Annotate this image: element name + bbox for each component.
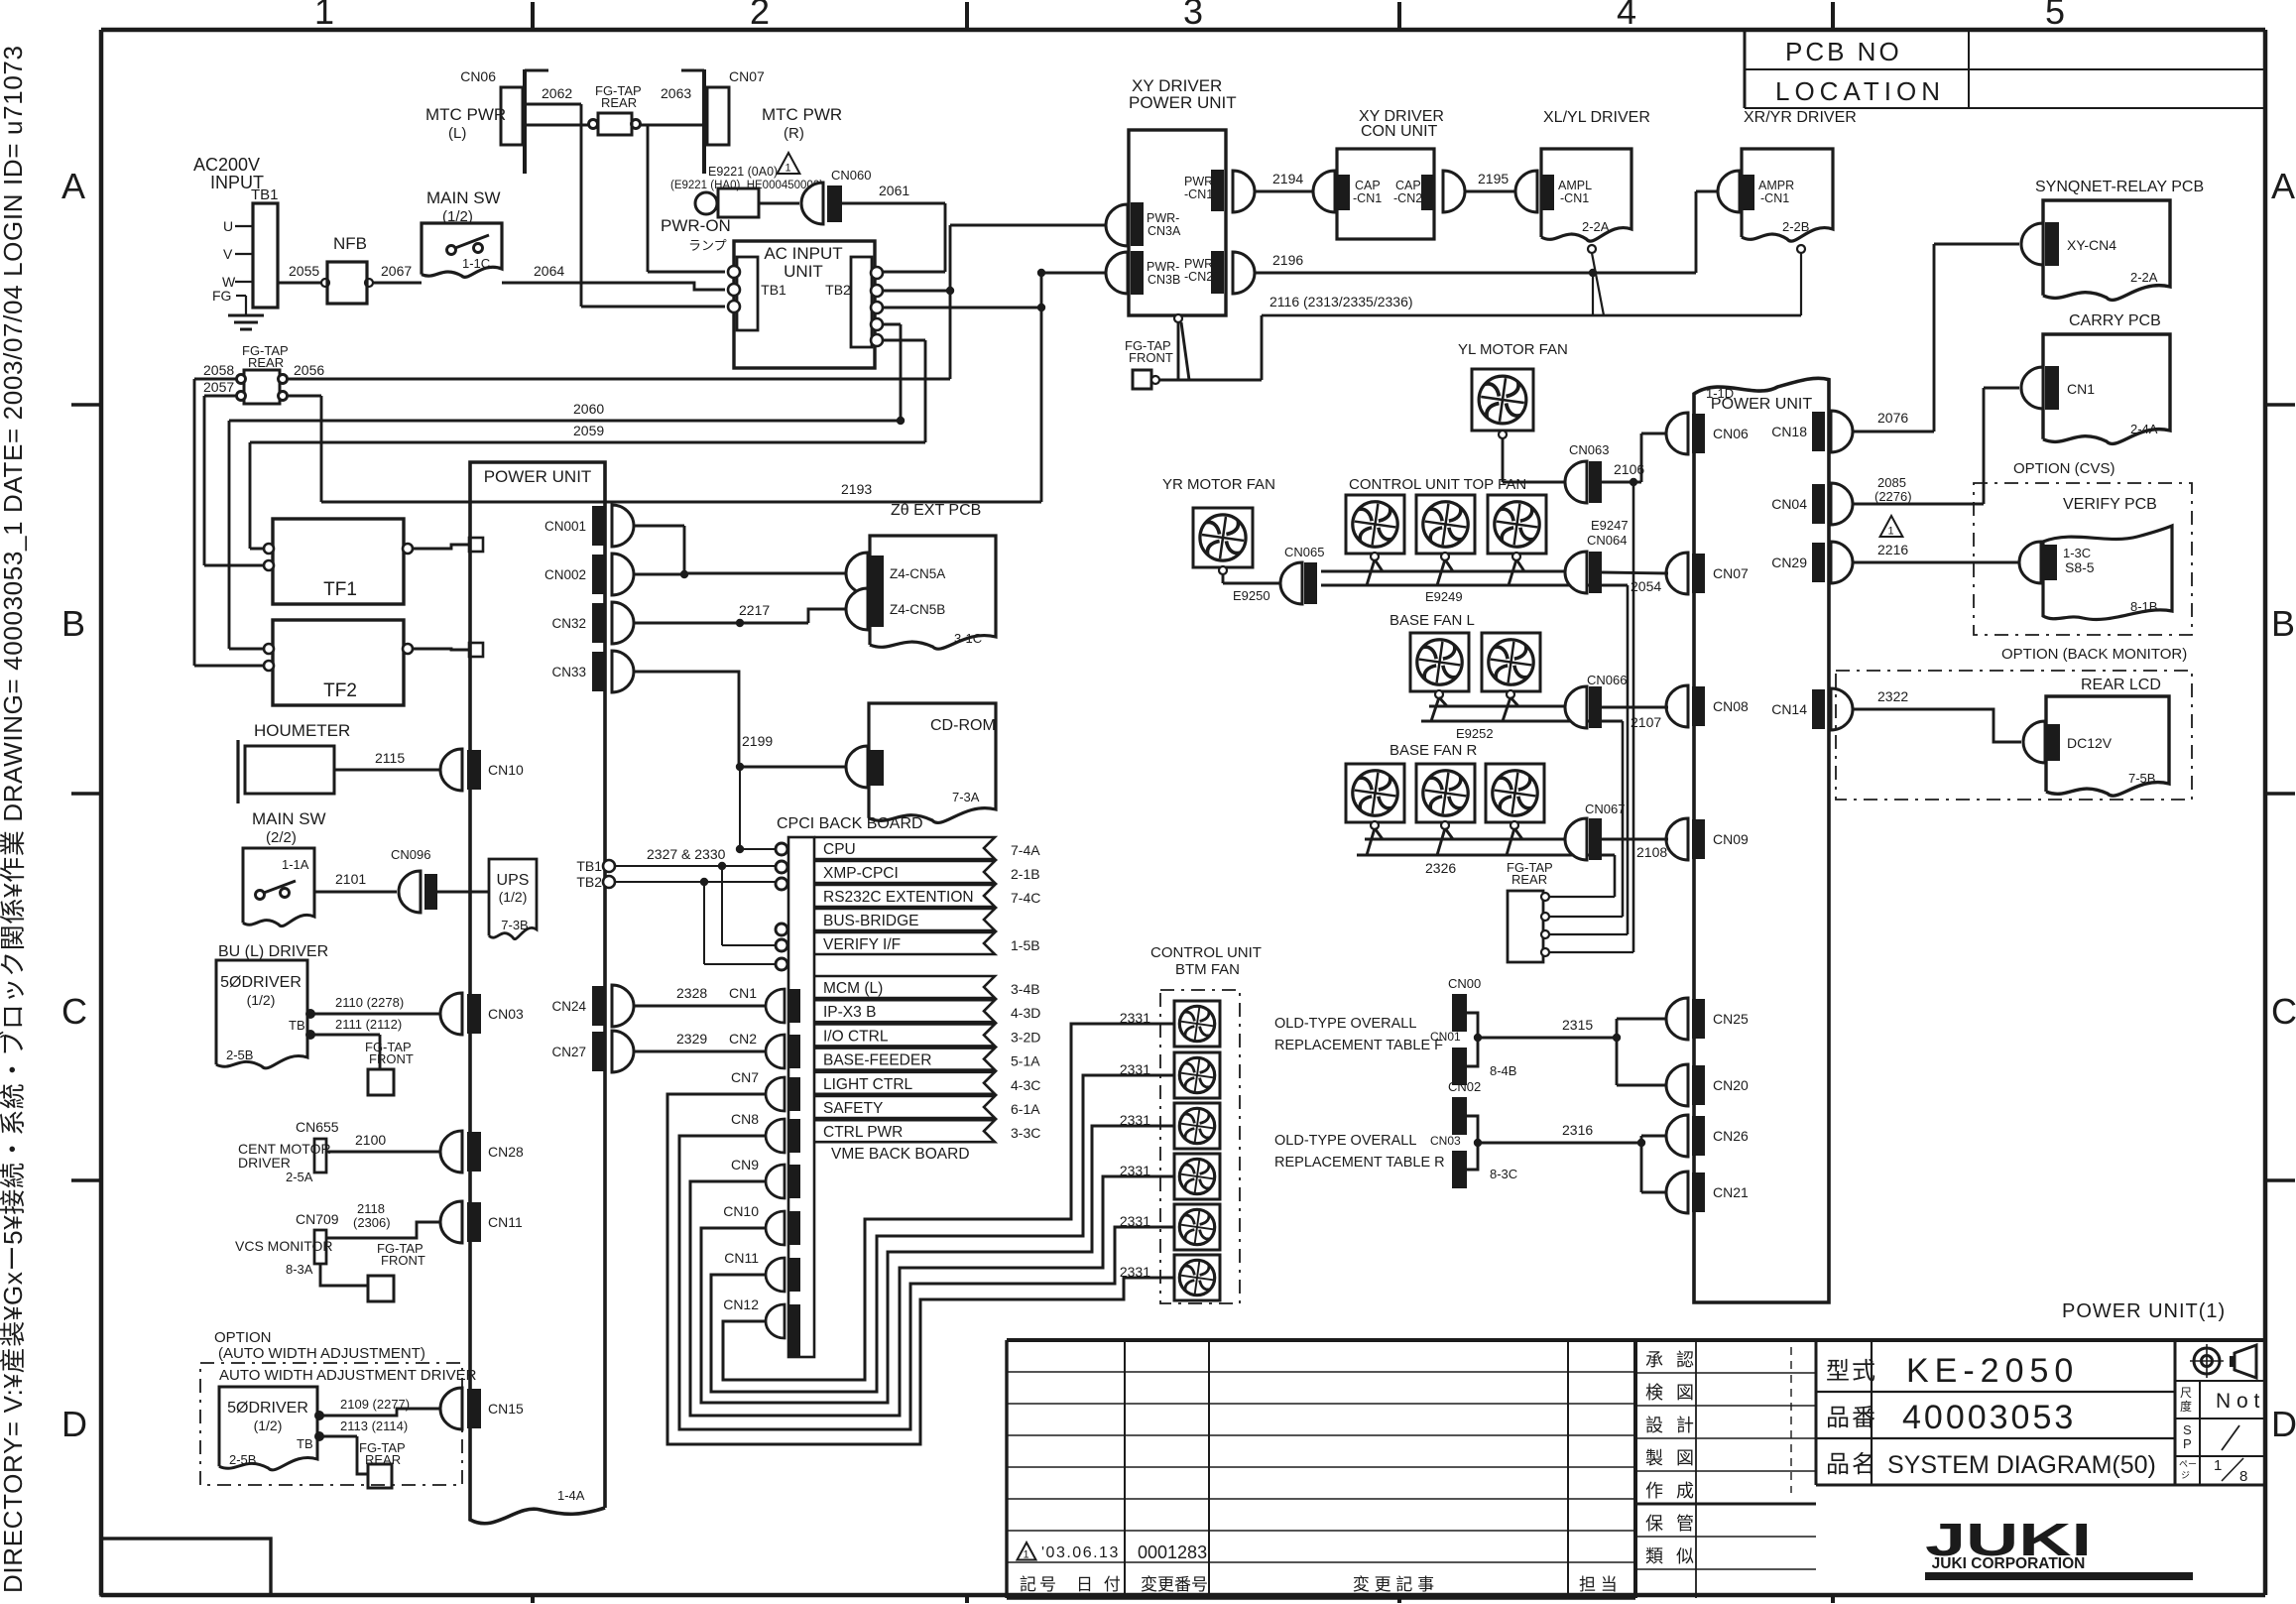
svg-text:BASE-FEEDER: BASE-FEEDER bbox=[823, 1052, 931, 1069]
svg-text:CN064: CN064 bbox=[1587, 533, 1627, 548]
svg-text:40003053: 40003053 bbox=[1902, 1399, 2076, 1436]
svg-text:2055: 2055 bbox=[289, 263, 319, 279]
svg-text:YR MOTOR FAN: YR MOTOR FAN bbox=[1162, 476, 1275, 493]
svg-text:XMP-CPCI: XMP-CPCI bbox=[823, 865, 899, 882]
svg-text:E9247: E9247 bbox=[1591, 518, 1629, 533]
svg-text:CN26: CN26 bbox=[1713, 1128, 1749, 1144]
svg-text:8-1B: 8-1B bbox=[2130, 599, 2157, 614]
svg-text:8: 8 bbox=[2239, 1468, 2247, 1485]
svg-text:MTC PWR: MTC PWR bbox=[762, 105, 842, 124]
svg-text:CN08: CN08 bbox=[1713, 698, 1749, 714]
svg-text:2106: 2106 bbox=[1614, 461, 1644, 477]
svg-text:Z4-CN5B: Z4-CN5B bbox=[890, 602, 945, 617]
svg-text:C: C bbox=[2271, 991, 2296, 1032]
svg-text:2-1B: 2-1B bbox=[1011, 866, 1040, 882]
svg-text:2076: 2076 bbox=[1877, 410, 1908, 426]
svg-text:CN10: CN10 bbox=[723, 1203, 759, 1219]
svg-text:(L): (L) bbox=[448, 125, 466, 142]
svg-text:TF1: TF1 bbox=[323, 579, 357, 600]
svg-text:2315: 2315 bbox=[1562, 1017, 1593, 1033]
svg-text:(1/2): (1/2) bbox=[247, 992, 276, 1008]
svg-text:変 更 記 事: 変 更 記 事 bbox=[1353, 1575, 1434, 1594]
svg-text:CAP: CAP bbox=[1395, 179, 1421, 192]
svg-text:FG: FG bbox=[212, 288, 231, 304]
svg-text:5: 5 bbox=[2045, 0, 2065, 32]
svg-text:2085: 2085 bbox=[1877, 475, 1906, 490]
svg-text:CAP: CAP bbox=[1355, 179, 1381, 192]
svg-text:5-1A: 5-1A bbox=[1011, 1053, 1040, 1069]
svg-text:2108: 2108 bbox=[1636, 844, 1667, 860]
svg-text:日 付: 日 付 bbox=[1076, 1575, 1124, 1594]
svg-text:NFB: NFB bbox=[333, 234, 367, 253]
svg-text:3-4B: 3-4B bbox=[1011, 981, 1040, 997]
svg-text:担 当: 担 当 bbox=[1579, 1575, 1618, 1594]
svg-text:POWER UNIT: POWER UNIT bbox=[1711, 396, 1812, 413]
svg-text:2059: 2059 bbox=[573, 423, 604, 438]
svg-text:CN09: CN09 bbox=[1713, 831, 1749, 847]
svg-text:2061: 2061 bbox=[879, 183, 909, 198]
svg-text:承 認: 承 認 bbox=[1645, 1350, 1698, 1370]
svg-text:BUS-BRIDGE: BUS-BRIDGE bbox=[823, 913, 918, 929]
svg-text:-CN2: -CN2 bbox=[1184, 270, 1213, 284]
svg-text:2-2A: 2-2A bbox=[1582, 219, 1610, 234]
svg-text:CN11: CN11 bbox=[724, 1250, 759, 1266]
svg-text:MCM (L): MCM (L) bbox=[823, 980, 883, 997]
svg-text:S8-5: S8-5 bbox=[2065, 559, 2095, 575]
svg-text:MTC PWR: MTC PWR bbox=[425, 105, 506, 124]
svg-text:TB1: TB1 bbox=[251, 186, 279, 203]
svg-text:品番: 品番 bbox=[1826, 1405, 1877, 1431]
svg-text:(1/2): (1/2) bbox=[499, 889, 528, 905]
svg-text:2216: 2216 bbox=[1877, 542, 1908, 557]
svg-text:TB1: TB1 bbox=[761, 282, 786, 298]
svg-text:CN20: CN20 bbox=[1713, 1077, 1749, 1093]
svg-text:LOCATION: LOCATION bbox=[1775, 76, 1945, 106]
svg-text:8-3A: 8-3A bbox=[286, 1262, 313, 1277]
svg-text:-CN1: -CN1 bbox=[1353, 191, 1382, 205]
svg-text:V: V bbox=[223, 246, 233, 262]
svg-text:FRONT: FRONT bbox=[1129, 350, 1173, 365]
svg-text:POWER UNIT: POWER UNIT bbox=[484, 467, 592, 486]
svg-text:AC INPUT: AC INPUT bbox=[764, 244, 842, 263]
svg-text:ペー: ペー bbox=[2179, 1459, 2197, 1469]
svg-text:VERIFY I/F: VERIFY I/F bbox=[823, 936, 901, 953]
svg-text:DRIVER: DRIVER bbox=[238, 1155, 291, 1171]
svg-text:CN24: CN24 bbox=[551, 999, 586, 1014]
svg-text:SYSTEM DIAGRAM(50): SYSTEM DIAGRAM(50) bbox=[1887, 1451, 2156, 1479]
svg-text:CN04: CN04 bbox=[1771, 496, 1807, 512]
svg-text:REAR: REAR bbox=[601, 95, 637, 110]
svg-text:3-1C: 3-1C bbox=[954, 631, 982, 646]
svg-text:8-4B: 8-4B bbox=[1490, 1063, 1516, 1078]
svg-text:FRONT: FRONT bbox=[369, 1051, 414, 1066]
svg-text:CN2: CN2 bbox=[729, 1031, 757, 1047]
svg-text:2: 2 bbox=[750, 0, 770, 32]
svg-text:8-3C: 8-3C bbox=[1490, 1167, 1517, 1181]
svg-text:ジ: ジ bbox=[2181, 1470, 2190, 1480]
svg-text:CN07: CN07 bbox=[729, 68, 765, 84]
svg-text:ランプ: ランプ bbox=[688, 238, 727, 253]
svg-text:RS232C EXTENTION: RS232C EXTENTION bbox=[823, 889, 974, 906]
svg-text:1-3C: 1-3C bbox=[2063, 546, 2091, 560]
svg-text:2-5B: 2-5B bbox=[229, 1452, 256, 1467]
svg-text:2064: 2064 bbox=[534, 263, 564, 279]
svg-text:CN06: CN06 bbox=[1713, 426, 1749, 441]
svg-text:CN655: CN655 bbox=[296, 1119, 339, 1135]
svg-text:AMPL: AMPL bbox=[1558, 179, 1592, 192]
svg-text:'03.06.13: '03.06.13 bbox=[1041, 1544, 1120, 1561]
svg-text:2056: 2056 bbox=[294, 362, 324, 378]
svg-text:CARRY PCB: CARRY PCB bbox=[2069, 312, 2161, 329]
svg-text:3-3C: 3-3C bbox=[1011, 1125, 1040, 1141]
svg-text:1: 1 bbox=[314, 0, 334, 32]
svg-text:CN28: CN28 bbox=[488, 1144, 524, 1160]
svg-text:CN3B: CN3B bbox=[1148, 273, 1180, 287]
svg-text:CONTROL UNIT TOP FAN: CONTROL UNIT TOP FAN bbox=[1349, 476, 1526, 493]
svg-text:1: 1 bbox=[1888, 526, 1894, 538]
svg-text:POWER UNIT: POWER UNIT bbox=[1129, 93, 1237, 112]
svg-text:3-2D: 3-2D bbox=[1011, 1029, 1040, 1045]
svg-text:UNIT: UNIT bbox=[784, 262, 823, 281]
svg-text:1-1A: 1-1A bbox=[282, 857, 309, 872]
svg-text:記号: 記号 bbox=[1020, 1575, 1059, 1594]
svg-text:2058: 2058 bbox=[203, 362, 234, 378]
svg-text:OPTION (CVS): OPTION (CVS) bbox=[2013, 460, 2115, 477]
svg-text:2329: 2329 bbox=[676, 1031, 707, 1047]
svg-text:MAIN SW: MAIN SW bbox=[426, 188, 501, 207]
svg-text:BASE FAN L: BASE FAN L bbox=[1390, 612, 1475, 629]
svg-text:D: D bbox=[61, 1404, 87, 1444]
svg-text:TF2: TF2 bbox=[323, 680, 357, 701]
svg-text:CN8: CN8 bbox=[731, 1111, 759, 1127]
svg-text:度: 度 bbox=[2180, 1399, 2192, 1414]
svg-text:BTM FAN: BTM FAN bbox=[1175, 961, 1240, 978]
svg-text:FRONT: FRONT bbox=[381, 1253, 425, 1268]
svg-text:2195: 2195 bbox=[1478, 171, 1509, 186]
svg-text:N o t: N o t bbox=[2216, 1390, 2260, 1413]
svg-text:検 図: 検 図 bbox=[1645, 1383, 1698, 1403]
svg-text:CN02: CN02 bbox=[1448, 1079, 1481, 1094]
svg-text:2113 (2114): 2113 (2114) bbox=[340, 1419, 408, 1433]
svg-text:CN065: CN065 bbox=[1284, 545, 1324, 559]
svg-text:(2276): (2276) bbox=[1874, 489, 1912, 504]
svg-text:PWR-: PWR- bbox=[1147, 260, 1179, 274]
svg-text:2194: 2194 bbox=[1272, 171, 1303, 186]
svg-text:4: 4 bbox=[1617, 0, 1636, 32]
svg-text:OLD-TYPE OVERALL: OLD-TYPE OVERALL bbox=[1274, 1133, 1416, 1149]
svg-text:C: C bbox=[61, 991, 87, 1032]
svg-text:-CN1: -CN1 bbox=[1560, 191, 1589, 205]
svg-text:CD-ROM: CD-ROM bbox=[930, 717, 996, 734]
svg-text:保 管: 保 管 bbox=[1645, 1514, 1698, 1534]
svg-text:BU (L) DRIVER: BU (L) DRIVER bbox=[218, 943, 328, 960]
svg-text:CPU: CPU bbox=[823, 841, 856, 858]
svg-text:PCB NO: PCB NO bbox=[1785, 37, 1902, 66]
svg-text:TB: TB bbox=[297, 1436, 313, 1451]
svg-text:I/O CTRL: I/O CTRL bbox=[823, 1028, 889, 1045]
svg-text:2-2A: 2-2A bbox=[2130, 270, 2158, 285]
svg-text:PWR-: PWR- bbox=[1147, 211, 1179, 225]
svg-text:CN07: CN07 bbox=[1713, 565, 1749, 581]
svg-text:POWER UNIT(1): POWER UNIT(1) bbox=[2062, 1300, 2226, 1322]
svg-text:A: A bbox=[61, 166, 85, 206]
svg-text:UPS: UPS bbox=[497, 872, 530, 889]
svg-text:2199: 2199 bbox=[742, 733, 773, 749]
svg-text:CN29: CN29 bbox=[1771, 555, 1807, 570]
svg-text:CN096: CN096 bbox=[391, 847, 430, 862]
svg-text:0001283: 0001283 bbox=[1138, 1542, 1207, 1562]
svg-text:(1/2): (1/2) bbox=[254, 1418, 283, 1433]
svg-text:CTRL PWR: CTRL PWR bbox=[823, 1124, 903, 1141]
svg-text:PWR: PWR bbox=[1184, 175, 1213, 188]
svg-text:CN14: CN14 bbox=[1771, 701, 1807, 717]
svg-text:OPTION: OPTION bbox=[214, 1329, 272, 1346]
svg-text:E9250: E9250 bbox=[1233, 588, 1270, 603]
svg-text:2331: 2331 bbox=[1120, 1010, 1150, 1026]
svg-text:AMPR: AMPR bbox=[1758, 179, 1794, 192]
svg-text:2326: 2326 bbox=[1425, 860, 1456, 876]
svg-text:YL MOTOR FAN: YL MOTOR FAN bbox=[1458, 341, 1568, 358]
svg-text:2110 (2278): 2110 (2278) bbox=[335, 995, 404, 1010]
svg-text:CN12: CN12 bbox=[723, 1296, 759, 1312]
svg-text:CN32: CN32 bbox=[551, 616, 586, 631]
svg-text:OLD-TYPE OVERALL: OLD-TYPE OVERALL bbox=[1274, 1016, 1416, 1032]
svg-text:XR/YR DRIVER: XR/YR DRIVER bbox=[1744, 109, 1857, 126]
svg-text:CN9: CN9 bbox=[731, 1157, 759, 1172]
svg-text:設 計: 設 計 bbox=[1645, 1416, 1698, 1435]
svg-text:変更番号: 変更番号 bbox=[1141, 1575, 1208, 1594]
svg-text:3: 3 bbox=[1183, 0, 1203, 32]
svg-text:2057: 2057 bbox=[203, 379, 234, 395]
svg-text:REPLACEMENT TABLE F: REPLACEMENT TABLE F bbox=[1274, 1038, 1443, 1053]
svg-text:CN27: CN27 bbox=[551, 1045, 586, 1059]
svg-text:7-5B: 7-5B bbox=[2128, 771, 2155, 786]
svg-text:7-4C: 7-4C bbox=[1011, 890, 1040, 906]
svg-text:2109 (2277): 2109 (2277) bbox=[340, 1397, 410, 1412]
svg-text:2331: 2331 bbox=[1120, 1061, 1150, 1077]
svg-text:2101: 2101 bbox=[335, 871, 366, 887]
svg-text:CN00: CN00 bbox=[1448, 976, 1481, 991]
svg-text:2116 (2313/2335/2336): 2116 (2313/2335/2336) bbox=[1269, 294, 1413, 309]
svg-text:TB1: TB1 bbox=[576, 858, 602, 874]
svg-text:LIGHT CTRL: LIGHT CTRL bbox=[823, 1076, 913, 1093]
svg-text:CN001: CN001 bbox=[544, 519, 586, 534]
svg-text:A: A bbox=[2271, 166, 2295, 206]
svg-text:7-4A: 7-4A bbox=[1011, 842, 1040, 858]
svg-text:2060: 2060 bbox=[573, 401, 604, 417]
svg-text:B: B bbox=[2271, 603, 2295, 644]
svg-text:(R): (R) bbox=[784, 125, 804, 142]
svg-text:CN063: CN063 bbox=[1569, 442, 1609, 457]
svg-text:4-3D: 4-3D bbox=[1011, 1005, 1040, 1021]
svg-text:Zθ EXT PCB: Zθ EXT PCB bbox=[891, 502, 981, 519]
svg-text:CN33: CN33 bbox=[551, 665, 586, 679]
svg-text:-CN1: -CN1 bbox=[1184, 187, 1213, 201]
svg-text:5ØDRIVER: 5ØDRIVER bbox=[227, 1400, 308, 1417]
svg-text:KE-2050: KE-2050 bbox=[1906, 1352, 2079, 1390]
svg-text:U: U bbox=[223, 218, 233, 234]
svg-text:CN03: CN03 bbox=[1430, 1134, 1461, 1148]
svg-text:TB2: TB2 bbox=[825, 282, 851, 298]
svg-text:DIRECTORY= V:¥産装¥Gxー5¥接続・系統・ブ: DIRECTORY= V:¥産装¥Gxー5¥接続・系統・ブロック関係¥作業 DR… bbox=[0, 46, 28, 1593]
svg-text:REAR LCD: REAR LCD bbox=[2081, 677, 2161, 693]
svg-text:CN067: CN067 bbox=[1585, 802, 1625, 816]
svg-text:D: D bbox=[2271, 1404, 2296, 1444]
svg-text:CN06: CN06 bbox=[460, 68, 496, 84]
svg-text:類 似: 類 似 bbox=[1645, 1546, 1698, 1566]
svg-text:-CN2: -CN2 bbox=[1393, 191, 1422, 205]
svg-text:2196: 2196 bbox=[1272, 252, 1303, 268]
svg-text:作 成: 作 成 bbox=[1645, 1481, 1698, 1501]
svg-text:CN15: CN15 bbox=[488, 1401, 524, 1417]
svg-text:HOUMETER: HOUMETER bbox=[254, 721, 350, 740]
svg-text:IP-X3 B: IP-X3 B bbox=[823, 1004, 876, 1021]
svg-text:CN10: CN10 bbox=[488, 762, 524, 778]
svg-text:CN1: CN1 bbox=[2067, 381, 2095, 397]
svg-text:CN060: CN060 bbox=[831, 168, 871, 183]
svg-text:1-1C: 1-1C bbox=[462, 256, 490, 271]
svg-text:-CN1: -CN1 bbox=[1760, 191, 1789, 205]
svg-text:E9252: E9252 bbox=[1456, 726, 1494, 741]
svg-text:2-4A: 2-4A bbox=[2130, 422, 2158, 436]
svg-text:TB2: TB2 bbox=[576, 874, 602, 890]
svg-text:JUKI CORPORATION: JUKI CORPORATION bbox=[1932, 1555, 2086, 1572]
svg-text:DC12V: DC12V bbox=[2067, 735, 2113, 751]
svg-text:2327 & 2330: 2327 & 2330 bbox=[647, 846, 726, 862]
svg-text:6-1A: 6-1A bbox=[1011, 1101, 1040, 1117]
svg-text:4-3C: 4-3C bbox=[1011, 1077, 1040, 1093]
svg-text:REAR: REAR bbox=[248, 355, 284, 370]
svg-text:CN709: CN709 bbox=[296, 1211, 339, 1227]
svg-text:製 図: 製 図 bbox=[1645, 1448, 1698, 1468]
svg-text:(2306): (2306) bbox=[353, 1215, 391, 1230]
svg-text:CN03: CN03 bbox=[488, 1006, 524, 1022]
svg-text:OPTION (BACK MONITOR): OPTION (BACK MONITOR) bbox=[2001, 646, 2187, 663]
svg-text:E9221 (0A0): E9221 (0A0) bbox=[708, 165, 778, 179]
svg-text:2331: 2331 bbox=[1120, 1213, 1150, 1229]
svg-text:CN18: CN18 bbox=[1771, 424, 1807, 439]
svg-text:CN11: CN11 bbox=[488, 1214, 523, 1230]
svg-text:2054: 2054 bbox=[1631, 578, 1661, 594]
svg-text:2331: 2331 bbox=[1120, 1264, 1150, 1280]
svg-text:1: 1 bbox=[1024, 1549, 1029, 1561]
svg-text:2063: 2063 bbox=[661, 85, 691, 101]
svg-text:尺: 尺 bbox=[2180, 1386, 2192, 1400]
svg-text:(2/2): (2/2) bbox=[266, 829, 297, 846]
svg-text:CN1: CN1 bbox=[729, 985, 757, 1001]
svg-text:2115: 2115 bbox=[375, 750, 405, 766]
svg-text:CN7: CN7 bbox=[731, 1069, 759, 1085]
svg-text:S: S bbox=[2183, 1422, 2192, 1437]
svg-text:(AUTO WIDTH ADJUSTMENT): (AUTO WIDTH ADJUSTMENT) bbox=[218, 1345, 425, 1362]
svg-text:型式: 型式 bbox=[1826, 1358, 1877, 1385]
svg-text:CN066: CN066 bbox=[1587, 673, 1627, 687]
svg-text:CN3A: CN3A bbox=[1148, 224, 1181, 238]
svg-text:REPLACEMENT TABLE R: REPLACEMENT TABLE R bbox=[1274, 1155, 1445, 1171]
svg-text:P: P bbox=[2183, 1436, 2192, 1451]
svg-text:2193: 2193 bbox=[841, 481, 872, 497]
svg-text:Z4-CN5A: Z4-CN5A bbox=[890, 566, 945, 581]
svg-text:1: 1 bbox=[2214, 1457, 2222, 1474]
svg-text:2111 (2112): 2111 (2112) bbox=[335, 1017, 402, 1032]
svg-text:1: 1 bbox=[785, 163, 791, 175]
svg-text:7-3B: 7-3B bbox=[501, 918, 528, 932]
svg-text:TB: TB bbox=[289, 1018, 305, 1033]
svg-text:2328: 2328 bbox=[676, 985, 707, 1001]
svg-text:VERIFY PCB: VERIFY PCB bbox=[2063, 496, 2157, 513]
svg-text:PWR: PWR bbox=[1184, 257, 1213, 271]
svg-text:2067: 2067 bbox=[381, 263, 412, 279]
svg-text:2331: 2331 bbox=[1120, 1163, 1150, 1178]
svg-text:REAR: REAR bbox=[1511, 872, 1547, 887]
svg-text:2062: 2062 bbox=[542, 85, 572, 101]
svg-text:2-2B: 2-2B bbox=[1782, 219, 1809, 234]
svg-text:2-5A: 2-5A bbox=[286, 1170, 313, 1184]
svg-text:2316: 2316 bbox=[1562, 1122, 1593, 1138]
svg-text:5ØDRIVER: 5ØDRIVER bbox=[220, 974, 302, 991]
svg-text:2107: 2107 bbox=[1631, 714, 1661, 730]
svg-text:MAIN SW: MAIN SW bbox=[252, 809, 326, 828]
svg-text:2331: 2331 bbox=[1120, 1112, 1150, 1128]
svg-text:品名: 品名 bbox=[1826, 1451, 1877, 1478]
svg-text:CONTROL UNIT: CONTROL UNIT bbox=[1150, 944, 1262, 961]
svg-text:1-5B: 1-5B bbox=[1011, 937, 1040, 953]
svg-text:2217: 2217 bbox=[739, 602, 770, 618]
svg-text:AC200V: AC200V bbox=[193, 155, 260, 175]
svg-text:7-3A: 7-3A bbox=[952, 790, 980, 804]
svg-text:CN01: CN01 bbox=[1430, 1030, 1461, 1044]
svg-text:PWR-ON: PWR-ON bbox=[661, 216, 731, 235]
svg-text:2100: 2100 bbox=[355, 1132, 386, 1148]
svg-text:SAFETY: SAFETY bbox=[823, 1100, 883, 1117]
svg-text:VCS MONITOR: VCS MONITOR bbox=[235, 1238, 333, 1254]
svg-text:E9249: E9249 bbox=[1425, 589, 1463, 604]
svg-text:VME BACK BOARD: VME BACK BOARD bbox=[831, 1146, 970, 1163]
svg-text:2-5B: 2-5B bbox=[226, 1048, 253, 1062]
svg-text:XL/YL DRIVER: XL/YL DRIVER bbox=[1543, 109, 1650, 126]
svg-text:XY-CN4: XY-CN4 bbox=[2067, 237, 2116, 253]
svg-text:CON UNIT: CON UNIT bbox=[1361, 123, 1438, 140]
svg-text:BASE FAN R: BASE FAN R bbox=[1390, 742, 1478, 759]
svg-text:CN25: CN25 bbox=[1713, 1011, 1749, 1027]
svg-text:1-4A: 1-4A bbox=[557, 1488, 585, 1503]
svg-text:CN21: CN21 bbox=[1713, 1184, 1749, 1200]
svg-text:CN002: CN002 bbox=[544, 567, 586, 582]
svg-text:2118: 2118 bbox=[357, 1201, 385, 1216]
svg-text:2322: 2322 bbox=[1877, 688, 1908, 704]
svg-text:AUTO WIDTH ADJUSTMENT DRIVER: AUTO WIDTH ADJUSTMENT DRIVER bbox=[219, 1367, 477, 1384]
svg-text:B: B bbox=[61, 603, 85, 644]
svg-text:SYNQNET-RELAY PCB: SYNQNET-RELAY PCB bbox=[2035, 179, 2204, 195]
